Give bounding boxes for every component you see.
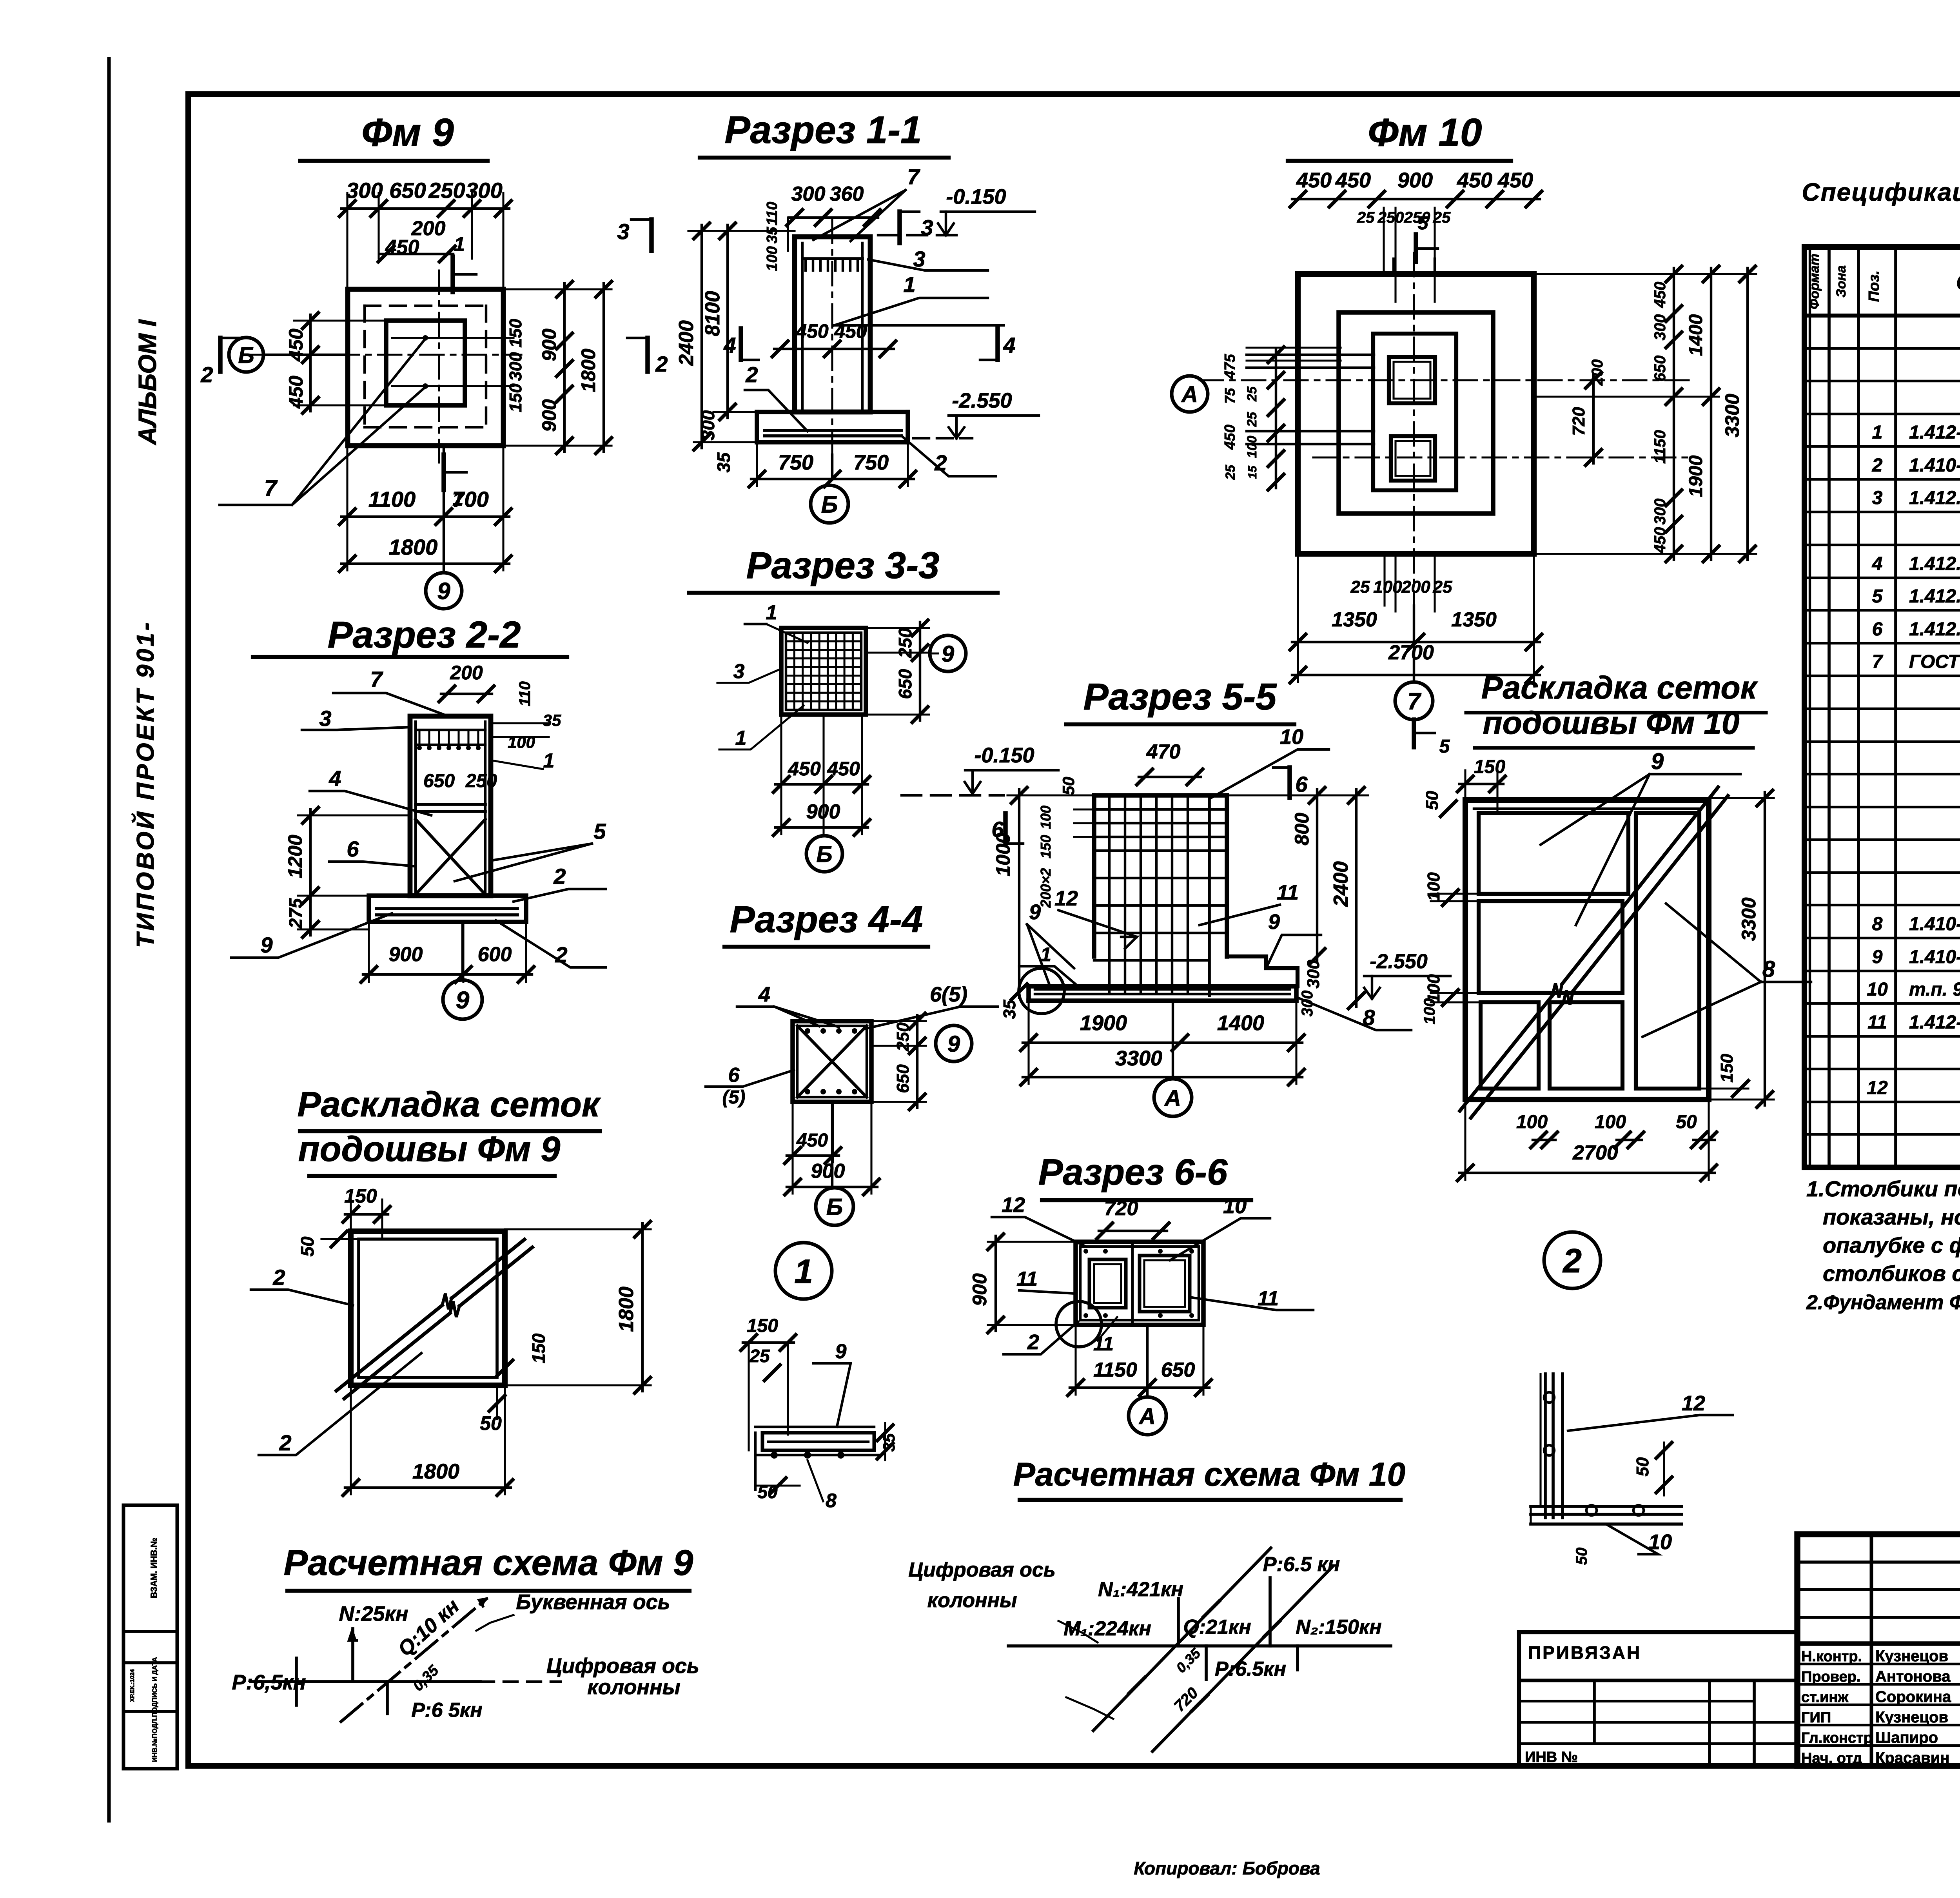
svg-text:1.410-2 Вып. 1: 1.410-2 Вып. 1 — [1909, 455, 1960, 476]
svg-text:475: 475 — [1222, 354, 1238, 379]
svg-text:колонны: колонны — [927, 1589, 1017, 1612]
svg-text:450: 450 — [385, 236, 419, 259]
svg-text:11: 11 — [1277, 881, 1299, 904]
svg-text:25: 25 — [1245, 386, 1259, 402]
svg-text:Буквенная ось: Буквенная ось — [516, 1590, 670, 1614]
svg-text:АЛЬБОМ I: АЛЬБОМ I — [133, 319, 162, 446]
svg-text:450: 450 — [285, 328, 307, 362]
svg-text:9: 9 — [1268, 910, 1280, 934]
svg-text:650: 650 — [389, 178, 426, 203]
svg-text:450: 450 — [1296, 169, 1332, 192]
svg-text:2: 2 — [553, 864, 566, 889]
svg-text:150: 150 — [1474, 757, 1505, 777]
svg-text:1200: 1200 — [284, 835, 306, 878]
svg-text:9: 9 — [947, 1031, 960, 1057]
svg-text:11: 11 — [1867, 1012, 1887, 1033]
svg-text:2700: 2700 — [1388, 641, 1434, 664]
svg-text:900: 900 — [969, 1273, 991, 1306]
svg-text:9: 9 — [260, 933, 272, 957]
svg-text:250: 250 — [465, 771, 497, 791]
svg-text:900: 900 — [811, 1160, 845, 1183]
svg-text:100: 100 — [764, 246, 780, 271]
svg-text:ГИП: ГИП — [1801, 1709, 1831, 1726]
svg-text:Б: Б — [238, 343, 254, 368]
svg-text:6: 6 — [1872, 619, 1883, 640]
svg-text:450: 450 — [1651, 527, 1669, 554]
svg-text:450: 450 — [827, 758, 860, 780]
svg-text:25: 25 — [1223, 465, 1238, 480]
svg-text:7: 7 — [1407, 688, 1421, 715]
svg-text:ТИПОВОЙ ПРОЕКТ 901-: ТИПОВОЙ ПРОЕКТ 901- — [131, 620, 159, 948]
svg-text:150: 150 — [506, 319, 525, 348]
svg-text:450: 450 — [1651, 282, 1669, 308]
svg-text:1800: 1800 — [389, 535, 438, 559]
svg-text:12: 12 — [1867, 1078, 1888, 1098]
svg-text:750: 750 — [778, 451, 813, 474]
svg-text:4: 4 — [1003, 333, 1015, 357]
svg-text:1400: 1400 — [1686, 314, 1706, 356]
svg-text:Раскладка сеток: Раскладка сеток — [298, 1085, 601, 1124]
svg-text:-0.150: -0.150 — [946, 185, 1006, 209]
svg-text:1.412.1- 4.080: 1.412.1- 4.080 — [1909, 619, 1960, 640]
svg-text:12: 12 — [1002, 1193, 1025, 1217]
svg-text:450: 450 — [1497, 169, 1533, 192]
svg-text:35: 35 — [543, 711, 561, 729]
svg-text:450: 450 — [1222, 425, 1238, 450]
svg-text:2700: 2700 — [1572, 1141, 1618, 1164]
svg-text:3: 3 — [617, 219, 629, 244]
svg-text:650: 650 — [895, 669, 915, 699]
svg-text:35: 35 — [764, 227, 780, 243]
svg-text:Фм 10: Фм 10 — [1368, 111, 1482, 154]
svg-text:ИНВ №: ИНВ № — [1525, 1749, 1578, 1766]
svg-text:2400: 2400 — [1330, 861, 1352, 907]
svg-text:1: 1 — [735, 727, 747, 749]
svg-text:2: 2 — [1027, 1330, 1039, 1354]
svg-text:Разрез 6-6: Разрез 6-6 — [1038, 1151, 1228, 1192]
svg-text:150: 150 — [344, 1185, 377, 1207]
svg-text:1: 1 — [543, 749, 555, 772]
svg-text:100: 100 — [1595, 1112, 1626, 1132]
svg-text:150: 150 — [1717, 1054, 1737, 1083]
svg-text:900: 900 — [538, 399, 560, 432]
svg-text:1: 1 — [452, 488, 463, 510]
svg-text:9: 9 — [1872, 947, 1883, 967]
svg-text:150: 150 — [747, 1316, 778, 1336]
svg-text:100: 100 — [1373, 577, 1402, 597]
svg-text:100: 100 — [1424, 872, 1443, 901]
svg-text:10: 10 — [1223, 1194, 1247, 1218]
svg-text:50: 50 — [1633, 1457, 1652, 1476]
svg-text:Провер.: Провер. — [1801, 1669, 1861, 1685]
svg-text:ст.инж: ст.инж — [1801, 1689, 1849, 1706]
svg-text:Расчетная схема Фм 9: Расчетная схема Фм 9 — [284, 1543, 693, 1583]
svg-text:450: 450 — [834, 320, 867, 342]
svg-text:6(5): 6(5) — [930, 983, 967, 1006]
svg-text:200: 200 — [450, 662, 483, 684]
svg-text:опалубке с фундаментами. Ра: опалубке с фундаментами. Размеры и привя… — [1823, 1233, 1960, 1257]
svg-text:15: 15 — [1246, 465, 1259, 479]
svg-text:7: 7 — [1872, 651, 1884, 672]
svg-text:А: А — [1138, 1404, 1156, 1429]
svg-text:3: 3 — [921, 215, 933, 240]
svg-text:2: 2 — [279, 1430, 291, 1455]
svg-text:4: 4 — [1872, 553, 1883, 574]
svg-text:Разрез 5-5: Разрез 5-5 — [1083, 676, 1277, 718]
svg-text:650: 650 — [1651, 356, 1669, 382]
svg-text:6: 6 — [728, 1064, 740, 1087]
svg-text:1800: 1800 — [577, 348, 599, 392]
svg-text:800: 800 — [1291, 813, 1313, 846]
svg-text:Сорокина: Сорокина — [1875, 1688, 1951, 1706]
svg-text:8: 8 — [1872, 914, 1883, 934]
svg-text:1.412.1- 4.080: 1.412.1- 4.080 — [1909, 586, 1960, 607]
svg-text:360: 360 — [830, 183, 864, 205]
svg-text:2.Фундамент Фм 10 разработан: 2.Фундамент Фм 10 разработан для темпера… — [1806, 1291, 1960, 1314]
svg-text:25: 25 — [1357, 209, 1375, 226]
svg-text:2: 2 — [272, 1265, 285, 1290]
svg-text:Б: Б — [821, 492, 838, 518]
svg-text:300: 300 — [1304, 960, 1323, 989]
svg-text:1900: 1900 — [1686, 455, 1706, 497]
svg-text:12: 12 — [1682, 1392, 1705, 1415]
svg-text:100: 100 — [1038, 806, 1054, 829]
svg-text:Цифровая ось: Цифровая ось — [546, 1654, 699, 1678]
svg-text:Разрез 4-4: Разрез 4-4 — [730, 898, 923, 940]
svg-text:25: 25 — [1350, 577, 1370, 597]
svg-text:11: 11 — [1016, 1268, 1038, 1290]
svg-text:-2.550: -2.550 — [952, 389, 1012, 412]
svg-text:250: 250 — [895, 628, 915, 658]
svg-text:8100: 8100 — [701, 291, 724, 336]
svg-text:250: 250 — [1377, 209, 1404, 226]
svg-text:450: 450 — [788, 758, 821, 780]
svg-text:300: 300 — [1651, 499, 1669, 525]
svg-text:900: 900 — [1397, 169, 1433, 192]
svg-text:720: 720 — [1104, 1197, 1138, 1220]
svg-text:показаны, но их необходимо в: показаны, но их необходимо выполнять в о… — [1823, 1205, 1960, 1229]
svg-text:Кузнецов: Кузнецов — [1875, 1709, 1948, 1726]
svg-text:10: 10 — [1280, 725, 1303, 749]
svg-text:1800: 1800 — [412, 1460, 459, 1483]
svg-text:25: 25 — [1245, 412, 1259, 427]
svg-text:6: 6 — [1295, 772, 1308, 797]
svg-text:50: 50 — [1423, 791, 1442, 810]
svg-text:1.412.1- 4.050: 1.412.1- 4.050 — [1909, 488, 1960, 508]
svg-text:200: 200 — [1401, 577, 1430, 597]
svg-text:1.410-2; Вып. 1: 1.410-2; Вып. 1 — [1909, 947, 1960, 967]
svg-text:50: 50 — [1059, 777, 1078, 795]
svg-text:900: 900 — [389, 943, 423, 966]
svg-text:ВЗАМ. ИНВ.№: ВЗАМ. ИНВ.№ — [149, 1538, 159, 1598]
svg-text:подошвы Фм 10: подошвы Фм 10 — [1483, 705, 1740, 741]
svg-text:275: 275 — [285, 898, 306, 929]
svg-text:9: 9 — [456, 987, 470, 1014]
svg-text:(5): (5) — [722, 1087, 746, 1108]
svg-text:900: 900 — [538, 328, 560, 361]
svg-text:12: 12 — [1054, 887, 1078, 910]
svg-text:450: 450 — [1335, 169, 1371, 192]
svg-text:650: 650 — [423, 771, 455, 791]
svg-text:Кузнецов: Кузнецов — [1875, 1648, 1948, 1665]
svg-text:450: 450 — [796, 1130, 828, 1151]
svg-text:1: 1 — [1040, 944, 1051, 965]
svg-text:2: 2 — [934, 450, 947, 475]
svg-text:Разрез 1-1: Разрез 1-1 — [724, 108, 922, 151]
svg-text:Фм 9: Фм 9 — [361, 111, 454, 154]
svg-text:600: 600 — [478, 943, 512, 966]
svg-text:25: 25 — [749, 1346, 770, 1366]
svg-text:4: 4 — [723, 333, 736, 357]
svg-text:2: 2 — [655, 352, 668, 376]
svg-text:3: 3 — [319, 706, 331, 731]
svg-text:35: 35 — [1000, 1000, 1019, 1019]
svg-text:ГОСТ 24379.1-80: ГОСТ 24379.1-80 — [1909, 651, 1960, 672]
svg-text:450: 450 — [285, 376, 307, 409]
svg-text:150: 150 — [506, 383, 525, 412]
svg-text:N₂:150кн: N₂:150кн — [1296, 1616, 1381, 1639]
svg-text:110: 110 — [516, 681, 534, 706]
svg-text:1150: 1150 — [1093, 1359, 1137, 1381]
svg-text:9: 9 — [1651, 749, 1664, 774]
svg-text:7: 7 — [370, 667, 383, 691]
svg-text:4: 4 — [328, 766, 341, 791]
svg-text:А: А — [1181, 382, 1198, 407]
svg-text:9: 9 — [1029, 900, 1041, 924]
svg-text:Разрез 2-2: Разрез 2-2 — [328, 614, 521, 656]
svg-text:750: 750 — [853, 451, 889, 474]
svg-text:35: 35 — [713, 452, 734, 473]
svg-text:50: 50 — [1573, 1548, 1590, 1565]
svg-text:1: 1 — [794, 1253, 813, 1290]
svg-text:Н.контр.: Н.контр. — [1801, 1648, 1862, 1665]
svg-text:5: 5 — [1439, 736, 1450, 757]
svg-text:100: 100 — [1516, 1112, 1548, 1132]
svg-text:1150: 1150 — [1651, 430, 1669, 464]
svg-text:1100: 1100 — [368, 487, 416, 512]
svg-text:300: 300 — [506, 352, 525, 381]
svg-text:8: 8 — [826, 1490, 837, 1512]
svg-text:2: 2 — [1872, 455, 1883, 476]
svg-text:450: 450 — [1457, 169, 1492, 192]
svg-text:5: 5 — [593, 819, 606, 844]
svg-text:300: 300 — [1651, 314, 1669, 341]
svg-text:2: 2 — [1562, 1242, 1582, 1280]
svg-text:9: 9 — [835, 1340, 847, 1363]
svg-text:450: 450 — [795, 320, 829, 342]
svg-text:250: 250 — [893, 1022, 913, 1052]
svg-text:ПОДПИСЬ И ДАТА: ПОДПИСЬ И ДАТА — [151, 1657, 158, 1717]
svg-text:300: 300 — [791, 183, 826, 205]
svg-text:M₁:224кн: M₁:224кн — [1063, 1617, 1151, 1640]
svg-text:N₁:421кн: N₁:421кн — [1098, 1578, 1183, 1601]
svg-text:Антонова: Антонова — [1875, 1668, 1951, 1685]
svg-text:50: 50 — [480, 1412, 502, 1434]
svg-text:100: 100 — [1424, 974, 1443, 1003]
svg-text:3: 3 — [733, 660, 745, 683]
svg-text:300: 300 — [346, 178, 383, 203]
svg-text:50: 50 — [1676, 1112, 1697, 1132]
svg-text:100: 100 — [508, 733, 535, 751]
svg-text:300: 300 — [698, 410, 718, 440]
svg-text:Расчетная схема Фм 10: Расчетная схема Фм 10 — [1013, 1456, 1406, 1493]
svg-text:1000: 1000 — [992, 833, 1014, 876]
svg-text:Разрез 3-3: Разрез 3-3 — [746, 544, 940, 586]
svg-text:1.412.1- 4.080: 1.412.1- 4.080 — [1909, 553, 1960, 574]
svg-text:3300: 3300 — [1115, 1047, 1162, 1070]
svg-text:-2.550: -2.550 — [1370, 950, 1428, 973]
svg-text:3: 3 — [1872, 488, 1883, 508]
svg-text:1900: 1900 — [1080, 1011, 1127, 1035]
svg-text:10: 10 — [1867, 979, 1888, 1000]
svg-text:5: 5 — [1418, 213, 1429, 234]
svg-text:100: 100 — [1245, 436, 1259, 458]
svg-text:1: 1 — [903, 272, 915, 297]
svg-text:1350: 1350 — [1451, 608, 1497, 631]
svg-text:колонны: колонны — [587, 1675, 681, 1699]
svg-text:1: 1 — [1872, 422, 1883, 443]
svg-text:75: 75 — [1222, 388, 1238, 404]
svg-text:150: 150 — [528, 1333, 549, 1363]
svg-text:2400: 2400 — [675, 320, 698, 366]
svg-text:т.п. 901-3- КЖИ.С2: т.п. 901-3- КЖИ.С2 — [1909, 979, 1960, 1000]
svg-text:250: 250 — [428, 178, 465, 203]
svg-text:1.412-1/77-В.3 -130: 1.412-1/77-В.3 -130 — [1909, 422, 1960, 443]
svg-text:ХР.ЕК.:1024: ХР.ЕК.:1024 — [129, 1669, 136, 1702]
svg-text:Спецификация элементов монолит: Спецификация элементов монолитной констр… — [1802, 178, 1960, 206]
svg-text:650: 650 — [1161, 1359, 1195, 1381]
svg-text:Шапиро: Шапиро — [1875, 1729, 1938, 1746]
svg-text:720: 720 — [1569, 407, 1588, 436]
svg-text:Обозначение: Обозначение — [1956, 270, 1960, 295]
svg-text:6: 6 — [347, 836, 359, 861]
svg-text:Поз.: Поз. — [1866, 270, 1882, 302]
svg-text:N:25кн: N:25кн — [339, 1602, 408, 1626]
svg-text:Нач. отд: Нач. отд — [1801, 1750, 1862, 1767]
svg-text:470: 470 — [1146, 740, 1181, 763]
svg-text:650: 650 — [893, 1064, 913, 1093]
svg-text:150: 150 — [1038, 835, 1054, 858]
svg-text:ИНВ.№ПОДЛ.: ИНВ.№ПОДЛ. — [151, 1717, 158, 1762]
svg-text:50: 50 — [297, 1236, 318, 1257]
svg-text:Р:6 5кн: Р:6 5кн — [411, 1699, 482, 1722]
svg-text:ПРИВЯЗАН: ПРИВЯЗАН — [1528, 1642, 1641, 1663]
svg-text:1: 1 — [454, 233, 465, 255]
svg-text:Б: Б — [826, 1194, 843, 1220]
svg-text:7: 7 — [907, 164, 920, 189]
svg-text:подошвы Фм 9: подошвы Фм 9 — [298, 1130, 561, 1169]
svg-text:2: 2 — [200, 362, 213, 387]
svg-text:столбиков см. лист КЖ-5.: столбиков см. лист КЖ-5. — [1823, 1261, 1960, 1286]
svg-text:Раскладка сеток: Раскладка сеток — [1481, 670, 1758, 706]
svg-text:1800: 1800 — [615, 1287, 638, 1332]
svg-text:Цифровая ось: Цифровая ось — [908, 1559, 1055, 1581]
svg-text:2: 2 — [745, 362, 758, 387]
svg-text:Зона: Зона — [1834, 265, 1849, 298]
svg-text:9: 9 — [437, 578, 450, 604]
svg-text:3300: 3300 — [1721, 394, 1743, 437]
svg-text:1.410-2; Вып. 1: 1.410-2; Вып. 1 — [1909, 914, 1960, 934]
svg-text:1.Столбики под фундаментные: 1.Столбики под фундаментные балки условн… — [1806, 1176, 1960, 1201]
svg-text:Красавин: Красавин — [1875, 1749, 1949, 1767]
svg-text:3300: 3300 — [1738, 897, 1760, 941]
svg-text:1.412-1/77-В.3 -130: 1.412-1/77-В.3 -130 — [1909, 1012, 1960, 1033]
svg-text:7: 7 — [264, 475, 278, 501]
svg-text:1400: 1400 — [1217, 1011, 1264, 1035]
svg-text:Формат: Формат — [1807, 254, 1822, 309]
svg-text:Гл.констр: Гл.констр — [1801, 1730, 1873, 1746]
svg-text:А: А — [1164, 1085, 1181, 1111]
svg-text:Копировал: Боброва: Копировал: Боброва — [1134, 1858, 1320, 1878]
svg-text:Б: Б — [816, 842, 832, 867]
svg-text:-0.150: -0.150 — [974, 744, 1034, 767]
svg-text:9: 9 — [942, 641, 954, 667]
svg-text:300: 300 — [1299, 991, 1316, 1017]
svg-text:1: 1 — [766, 601, 777, 624]
svg-text:110: 110 — [764, 202, 780, 226]
svg-text:5: 5 — [1872, 586, 1883, 607]
svg-text:4: 4 — [758, 983, 770, 1006]
svg-text:1350: 1350 — [1332, 608, 1377, 631]
